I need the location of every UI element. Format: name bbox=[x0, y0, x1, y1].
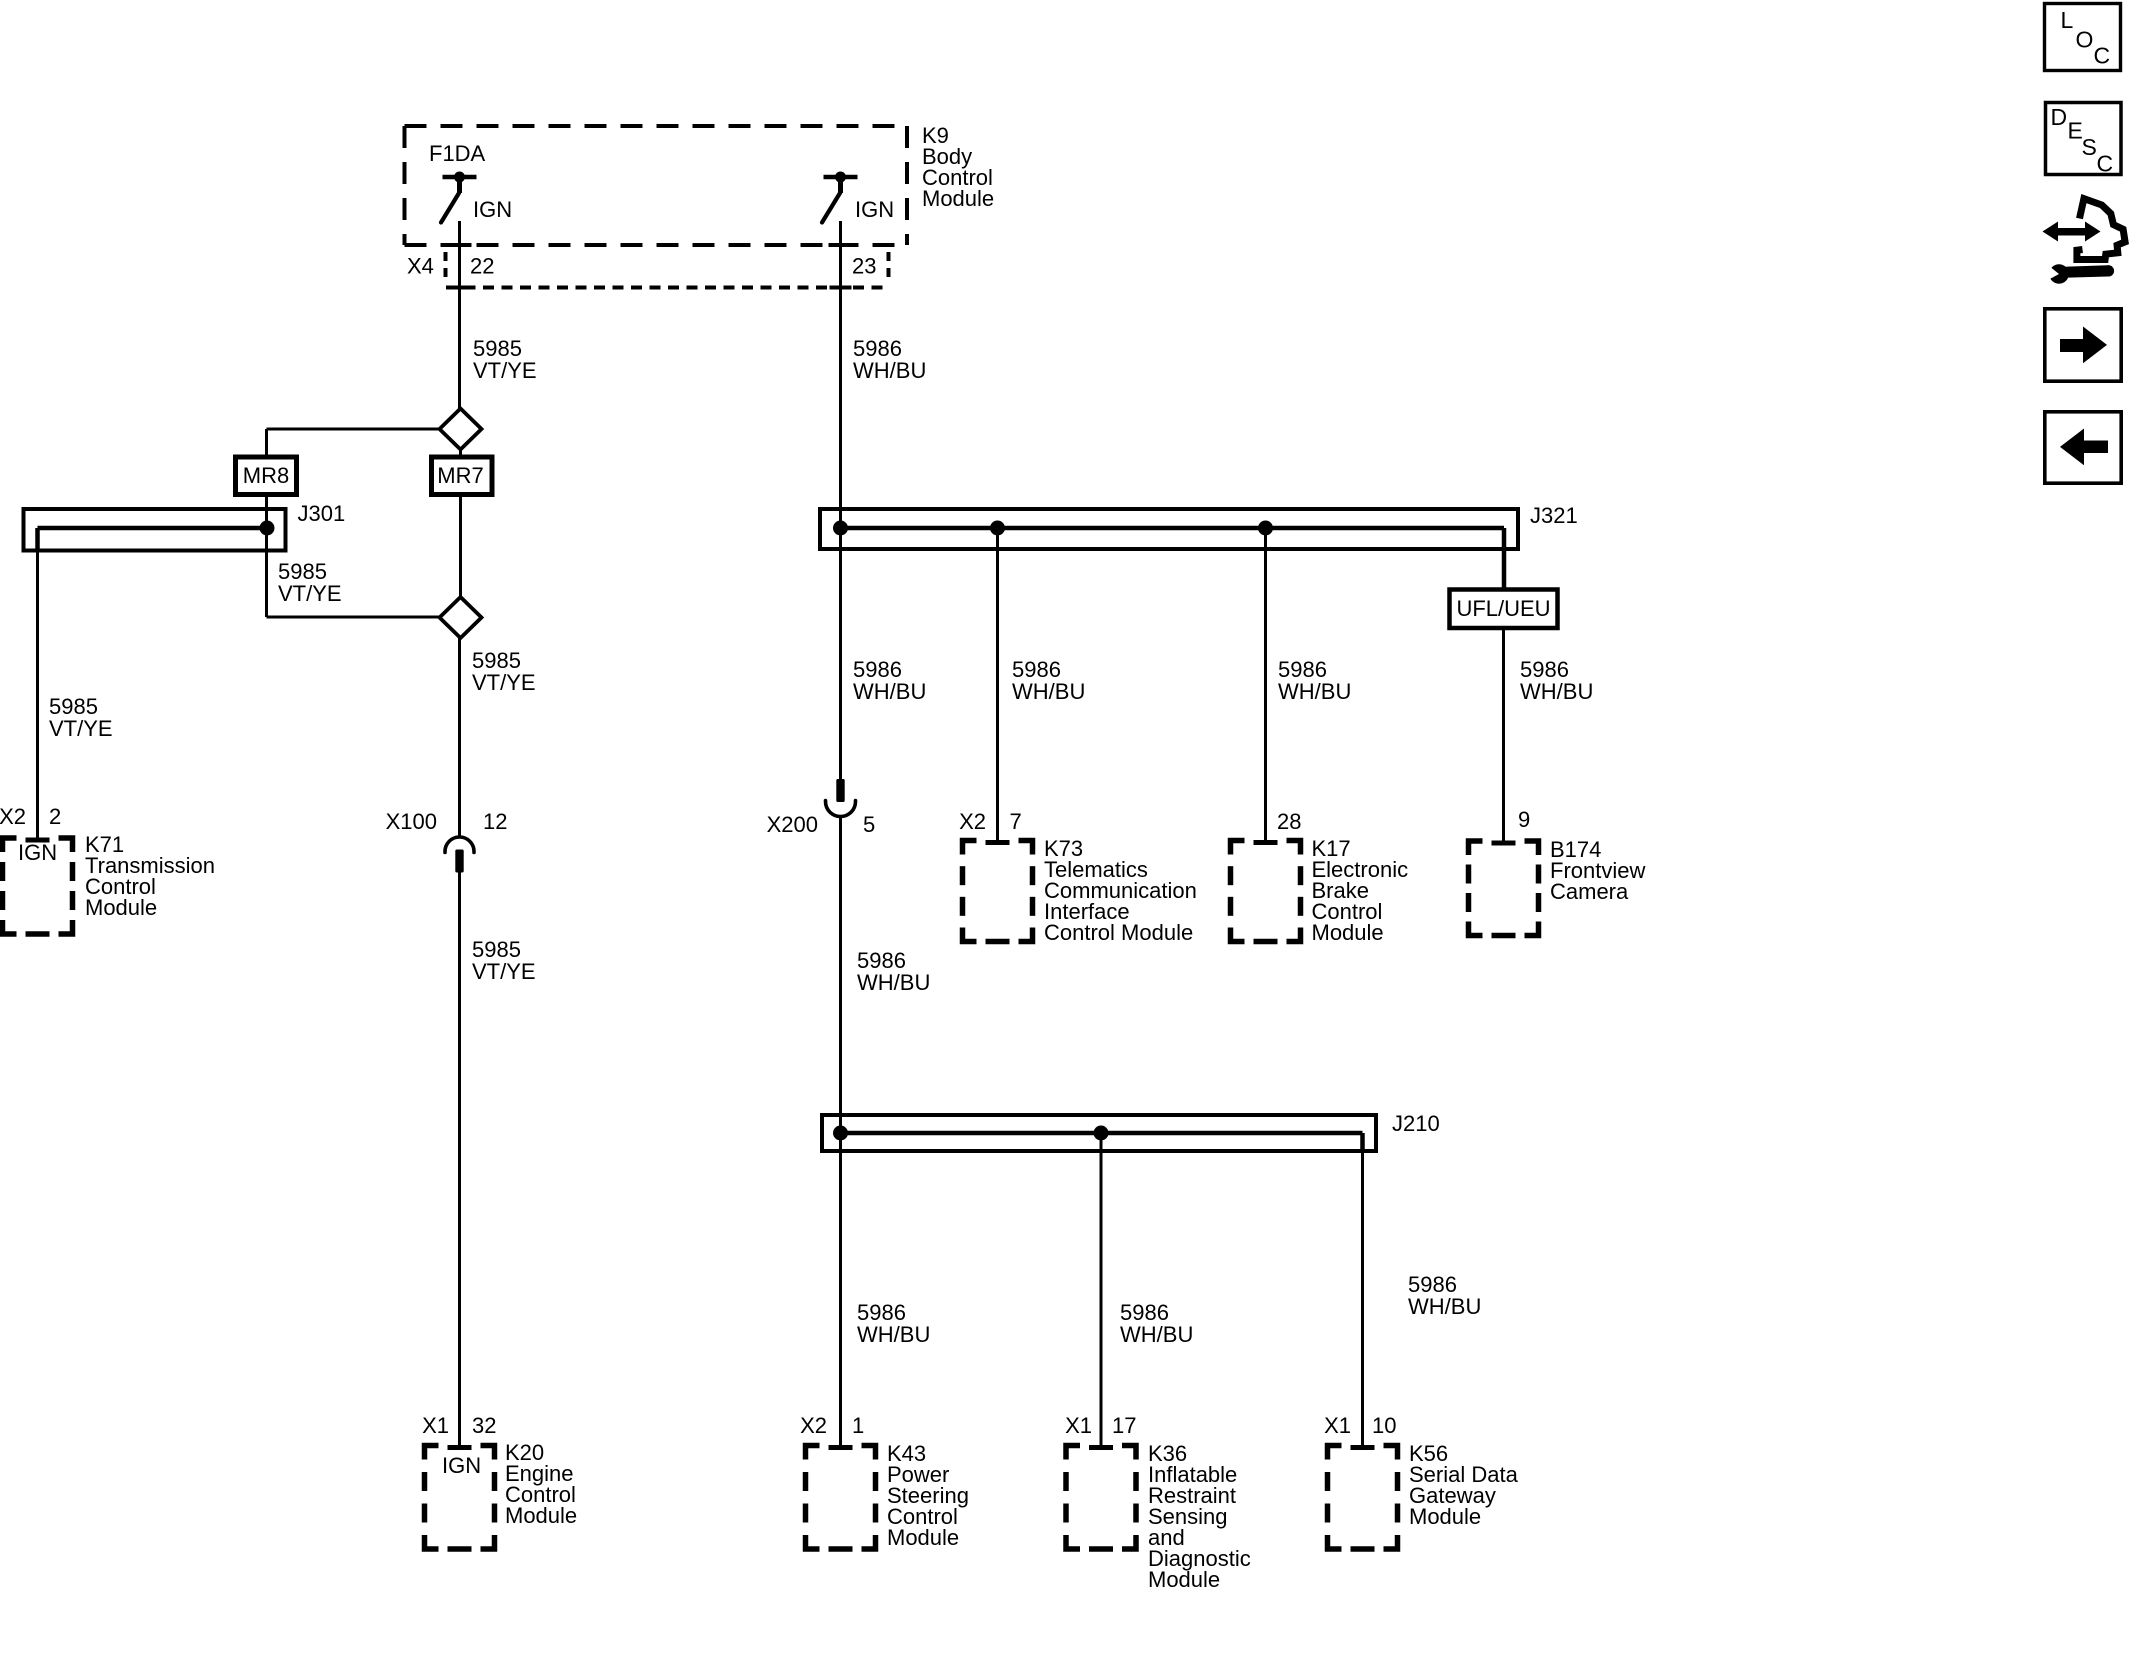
svg-text:Module: Module bbox=[85, 895, 157, 920]
svg-text:X4: X4 bbox=[407, 254, 434, 279]
svg-text:Control Module: Control Module bbox=[1044, 920, 1193, 945]
svg-text:S: S bbox=[2082, 134, 2097, 160]
svg-text:WH/BU: WH/BU bbox=[857, 1322, 930, 1347]
svg-text:C: C bbox=[2094, 43, 2111, 69]
svg-text:Camera: Camera bbox=[1550, 879, 1629, 904]
svg-text:D: D bbox=[2051, 104, 2068, 130]
svg-text:J321: J321 bbox=[1530, 503, 1578, 528]
svg-text:Module: Module bbox=[505, 1503, 577, 1528]
svg-text:Module: Module bbox=[1312, 920, 1384, 945]
svg-text:1: 1 bbox=[852, 1413, 864, 1438]
svg-text:WH/BU: WH/BU bbox=[853, 358, 926, 383]
svg-text:Module: Module bbox=[1409, 1504, 1481, 1529]
svg-text:IGN: IGN bbox=[18, 840, 57, 865]
svg-text:Module: Module bbox=[887, 1525, 959, 1550]
svg-text:5: 5 bbox=[863, 812, 875, 837]
svg-text:Module: Module bbox=[1148, 1567, 1220, 1592]
svg-text:WH/BU: WH/BU bbox=[1012, 679, 1085, 704]
svg-text:IGN: IGN bbox=[473, 197, 512, 222]
svg-text:VT/YE: VT/YE bbox=[472, 959, 536, 984]
svg-text:22: 22 bbox=[470, 254, 494, 279]
svg-text:WH/BU: WH/BU bbox=[1520, 679, 1593, 704]
svg-text:17: 17 bbox=[1112, 1413, 1136, 1438]
svg-text:J210: J210 bbox=[1392, 1111, 1440, 1136]
svg-text:X2: X2 bbox=[959, 809, 986, 834]
svg-text:VT/YE: VT/YE bbox=[473, 358, 537, 383]
svg-text:Module: Module bbox=[922, 186, 994, 211]
svg-text:O: O bbox=[2076, 27, 2094, 53]
svg-text:9: 9 bbox=[1518, 807, 1530, 832]
svg-text:WH/BU: WH/BU bbox=[1408, 1294, 1481, 1319]
svg-text:X1: X1 bbox=[1065, 1413, 1092, 1438]
svg-text:WH/BU: WH/BU bbox=[1120, 1322, 1193, 1347]
svg-text:X100: X100 bbox=[386, 809, 437, 834]
svg-text:VT/YE: VT/YE bbox=[278, 581, 342, 606]
svg-text:7: 7 bbox=[1010, 809, 1022, 834]
svg-text:VT/YE: VT/YE bbox=[472, 670, 536, 695]
svg-text:WH/BU: WH/BU bbox=[857, 970, 930, 995]
svg-text:UFL/UEU: UFL/UEU bbox=[1456, 596, 1550, 621]
svg-text:10: 10 bbox=[1372, 1413, 1396, 1438]
svg-text:12: 12 bbox=[483, 809, 507, 834]
svg-text:F1DA: F1DA bbox=[429, 141, 486, 166]
svg-text:IGN: IGN bbox=[855, 197, 894, 222]
svg-text:X2: X2 bbox=[0, 804, 26, 829]
svg-text:X2: X2 bbox=[800, 1413, 827, 1438]
svg-text:MR7: MR7 bbox=[437, 463, 483, 488]
svg-text:X1: X1 bbox=[1324, 1413, 1351, 1438]
svg-text:WH/BU: WH/BU bbox=[1278, 679, 1351, 704]
svg-text:J301: J301 bbox=[298, 501, 346, 526]
svg-text:WH/BU: WH/BU bbox=[853, 679, 926, 704]
svg-text:X1: X1 bbox=[422, 1413, 449, 1438]
svg-text:MR8: MR8 bbox=[243, 463, 289, 488]
svg-text:2: 2 bbox=[49, 804, 61, 829]
svg-text:VT/YE: VT/YE bbox=[49, 716, 113, 741]
svg-text:C: C bbox=[2097, 151, 2114, 177]
svg-text:X200: X200 bbox=[767, 812, 818, 837]
svg-text:IGN: IGN bbox=[442, 1453, 481, 1478]
svg-text:23: 23 bbox=[852, 254, 876, 279]
svg-text:L: L bbox=[2061, 7, 2074, 33]
svg-text:28: 28 bbox=[1277, 809, 1301, 834]
svg-text:32: 32 bbox=[472, 1413, 496, 1438]
